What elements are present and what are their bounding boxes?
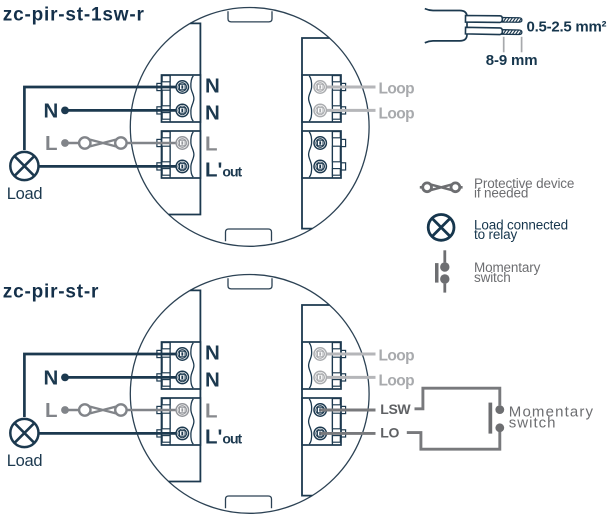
wire 2 stripped end [502, 30, 522, 35]
wire LSW stub [320, 409, 375, 412]
wire LO stub [320, 432, 375, 435]
wire 1 insulated [465, 15, 521, 22]
svg-text:switch: switch [474, 270, 511, 285]
legend load icon [428, 215, 454, 241]
diagram 1: zc-pir-st-1sw-r device [7, 8, 414, 247]
wire LO to switch [407, 432, 500, 449]
momentary switch actuator bar [489, 403, 493, 434]
svg-text:zc-pir-st-1sw-r: zc-pir-st-1sw-r [3, 5, 145, 26]
LSW / LO wiring extras of diagram 2 [320, 388, 594, 449]
legend momentary switch icon [435, 250, 449, 292]
wire 2 insulated [465, 27, 522, 35]
svg-text:LSW: LSW [380, 401, 411, 417]
cable strip icon [425, 9, 607, 70]
legend protective device icon [420, 183, 463, 192]
diagram 2: zc-pir-st-r device [7, 275, 414, 514]
svg-text:0.5-2.5 mm²: 0.5-2.5 mm² [527, 18, 607, 35]
dimension tick right [521, 37, 523, 53]
svg-text:8-9 mm: 8-9 mm [486, 52, 538, 69]
dimension tick left [503, 37, 505, 53]
momentary switch contact lower [495, 423, 504, 432]
svg-text:to relay: to relay [474, 227, 517, 242]
svg-text:zc-pir-st-r: zc-pir-st-r [3, 282, 99, 303]
svg-text:if needed: if needed [474, 186, 528, 201]
wire LSW to switch [415, 388, 500, 409]
svg-text:LO: LO [380, 424, 399, 440]
svg-text:switch: switch [509, 415, 557, 432]
cable sheath [425, 9, 467, 43]
wire 1 stripped end [502, 18, 522, 23]
momentary switch contact upper [495, 405, 504, 414]
legend [420, 176, 574, 293]
